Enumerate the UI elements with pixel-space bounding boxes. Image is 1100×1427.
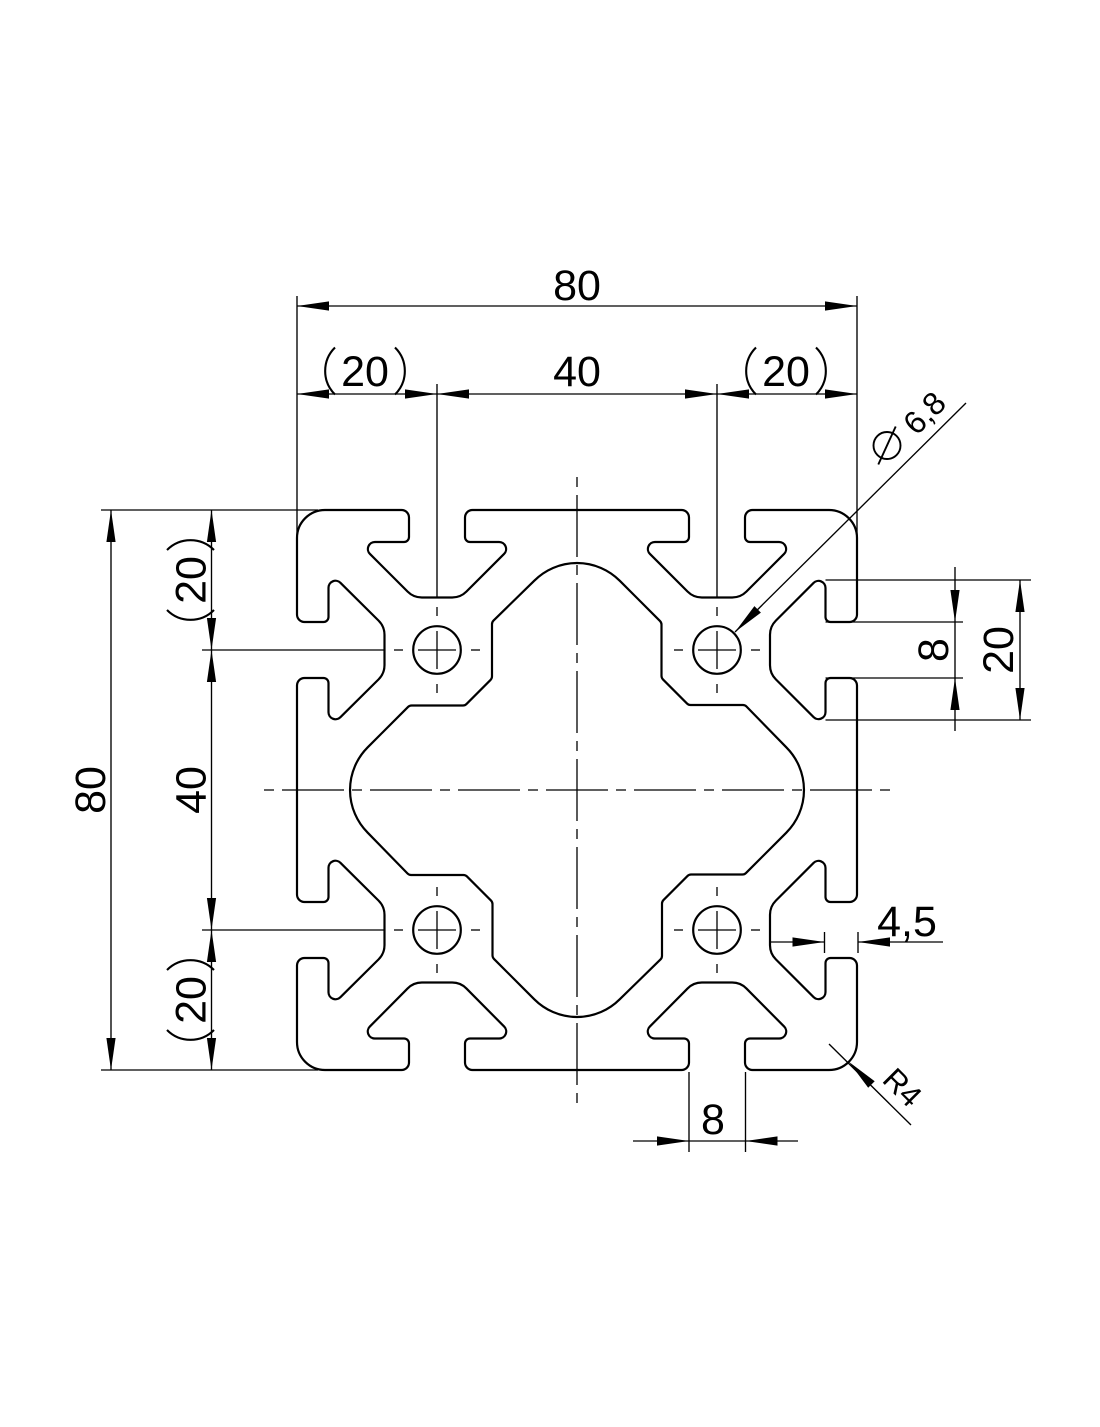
svg-text:8: 8: [910, 638, 958, 662]
extension line slot center y=650: [202, 649, 384, 651]
leader R4: [829, 1044, 911, 1125]
extension line bottom (y=1070): [101, 1069, 318, 1071]
extension line mouth bottom (y=678): [826, 677, 964, 679]
extension line right (x=857): [856, 296, 858, 540]
dimension 8 (right slot opening): [954, 567, 956, 731]
svg-text:20: 20: [975, 626, 1023, 674]
center mark bottom-left hole: [394, 929, 403, 931]
svg-text:20: 20: [341, 348, 389, 396]
core hole bottom-right (diam 6.8): [693, 906, 741, 954]
dimension 80 (left): [110, 510, 112, 1070]
svg-text:80: 80: [67, 766, 115, 814]
core hole top-left (diam 6.8): [413, 626, 461, 674]
extension line mouth right (x=745.5): [745, 1072, 747, 1152]
svg-text:40: 40: [553, 348, 601, 396]
dimension 20 (right slot width): [1019, 580, 1021, 720]
core hole top-right (diam 6.8): [693, 626, 741, 674]
svg-text:40: 40: [168, 766, 216, 814]
profile outer boundary with 8 T-slots: [297, 510, 857, 1070]
center mark top-right hole: [674, 649, 683, 651]
dimension (20) 40 (20) left: [211, 510, 213, 1070]
dimension (20) 40 (20) top: [297, 393, 857, 395]
center mark top-left hole: [394, 649, 403, 651]
dimension 8 (bottom slot opening): [633, 1140, 798, 1142]
extension line slot lip bottom (y=720): [826, 719, 1032, 721]
svg-text:20: 20: [168, 556, 216, 604]
leader diam 6,8: [735, 403, 966, 632]
svg-text:6,8: 6,8: [896, 385, 953, 442]
extension line slot lip top (y=580): [826, 579, 1032, 581]
svg-text:R4: R4: [876, 1061, 929, 1114]
center mark bottom-right hole: [674, 929, 683, 931]
extension line left (x=297): [296, 296, 298, 540]
label diam 6,8: [874, 432, 901, 459]
horizontal center line: [257, 789, 897, 791]
dimension 80 (top): [297, 305, 857, 307]
svg-text:20: 20: [168, 976, 216, 1024]
profile inner core cavity: [350, 563, 804, 1017]
core hole bottom-left (diam 6.8): [413, 906, 461, 954]
extension line top (y=510): [101, 509, 318, 511]
extension line mouth left (x=689): [688, 1072, 690, 1152]
dimension 4,5 lines: [771, 941, 825, 943]
tick at x=858: [857, 932, 859, 953]
svg-text:4,5: 4,5: [877, 898, 937, 946]
vertical center line: [576, 470, 578, 1110]
extension line slot center y=930: [202, 929, 384, 931]
tick at x=824.5: [824, 932, 826, 953]
extension line mouth top (y=622): [826, 621, 964, 623]
extension line slot center x=437: [436, 384, 438, 597]
svg-text:8: 8: [701, 1096, 725, 1144]
extension line slot center x=717: [716, 384, 718, 597]
svg-text:80: 80: [553, 262, 601, 310]
svg-text:20: 20: [762, 348, 810, 396]
